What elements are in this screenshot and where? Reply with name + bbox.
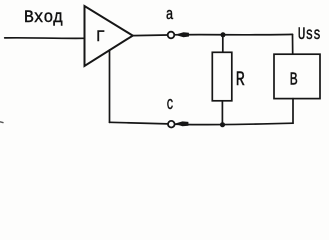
wire junction to resistor top (222, 35, 224, 52)
svg-text:R: R (236, 69, 245, 92)
svg-text:В: В (290, 70, 298, 91)
wire resistor bottom (221, 101, 223, 125)
wire input (5, 37, 84, 40)
wire top rail corner down to box B (292, 35, 294, 55)
wire feedback from triangle bottom edge (109, 50, 111, 122)
svg-text:Г: Г (96, 27, 105, 45)
junction dot top (221, 32, 226, 37)
arrow at node a (176, 33, 188, 37)
resistor R (212, 52, 232, 101)
svg-text:c: c (167, 93, 174, 115)
wire box B bottom (292, 99, 294, 124)
scan speck bottom-left edge (0, 121, 3, 124)
svg-text:a: a (166, 7, 174, 25)
svg-text:Uss: Uss (298, 24, 321, 45)
node c terminal circle (168, 121, 175, 128)
svg-text:Вход: Вход (24, 9, 63, 29)
amplifier U1 (Г) triangle (85, 6, 133, 66)
arrow at node c (176, 122, 188, 126)
junction dot bottom (220, 122, 225, 127)
wire top rail (174, 33, 292, 35)
box B (274, 54, 320, 98)
wire apex to node a (133, 34, 168, 37)
node a terminal circle (168, 32, 175, 39)
wire bottom rail (110, 122, 294, 124)
